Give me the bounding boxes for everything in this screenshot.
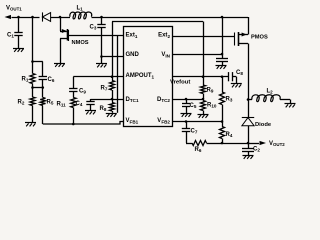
svg-text:R10: R10	[207, 103, 217, 109]
svg-text:R6: R6	[195, 147, 202, 153]
svg-text:VOUT2: VOUT2	[269, 141, 285, 147]
svg-text:DTC2: DTC2	[157, 97, 170, 103]
svg-text:R7: R7	[101, 86, 108, 92]
svg-text:R4: R4	[226, 132, 233, 138]
svg-text:R3: R3	[226, 97, 233, 103]
svg-text:R1: R1	[22, 77, 29, 83]
svg-text:PMOS: PMOS	[251, 35, 268, 41]
svg-text:C3: C3	[90, 25, 97, 31]
svg-text:C1: C1	[7, 33, 14, 39]
svg-text:C2: C2	[253, 147, 260, 153]
svg-text:VFB1: VFB1	[126, 118, 139, 124]
svg-text:Ext2: Ext2	[158, 33, 170, 39]
svg-text:AMPOUT1: AMPOUT1	[126, 73, 155, 79]
svg-text:R5: R5	[47, 100, 54, 106]
svg-text:L1: L1	[77, 6, 84, 12]
svg-text:C7: C7	[191, 129, 198, 135]
svg-text:L2: L2	[267, 89, 274, 95]
svg-text:VFB2: VFB2	[157, 118, 170, 124]
svg-text:C4: C4	[76, 101, 83, 107]
svg-text:C6: C6	[48, 77, 55, 83]
svg-text:C9: C9	[79, 89, 86, 95]
svg-text:DTC1: DTC1	[126, 97, 139, 103]
svg-text:Ext1: Ext1	[126, 33, 138, 39]
svg-text:VIN: VIN	[161, 52, 170, 58]
svg-text:Diode: Diode	[255, 122, 272, 128]
svg-text:GND: GND	[126, 52, 140, 58]
svg-text:NMOS: NMOS	[72, 40, 89, 46]
svg-text:VOUT1: VOUT1	[6, 6, 22, 12]
svg-text:R11: R11	[57, 102, 67, 108]
svg-text:R8: R8	[100, 106, 107, 112]
svg-text:R9: R9	[207, 88, 214, 94]
svg-text:R2: R2	[18, 100, 25, 106]
svg-text:C5: C5	[190, 103, 197, 109]
svg-text:Vrefout: Vrefout	[170, 80, 190, 86]
svg-text:C8: C8	[236, 70, 243, 76]
